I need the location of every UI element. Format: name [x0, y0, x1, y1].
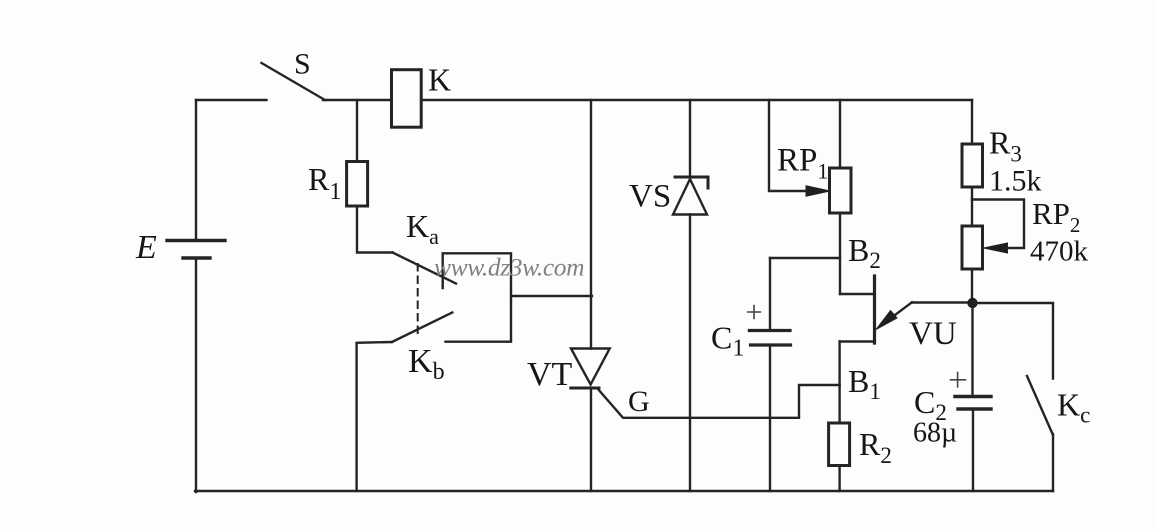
- svg-text:Ka: Ka: [406, 208, 439, 249]
- zener diode VS: [673, 177, 708, 215]
- svg-text:B2: B2: [848, 232, 881, 273]
- wire VU emitter: [912, 301, 973, 303]
- svg-text:RP1: RP1: [777, 143, 828, 184]
- capacitor C2: [951, 373, 991, 410]
- svg-text:S: S: [294, 48, 311, 81]
- svg-text:VU: VU: [909, 316, 957, 352]
- svg-text:G: G: [628, 385, 650, 418]
- wire contact box output: [511, 295, 592, 297]
- wire R3 to RP2: [971, 187, 973, 226]
- wire C1 bottom lead: [769, 345, 771, 491]
- svg-text:VT: VT: [527, 356, 573, 393]
- potentiometer RP2: [962, 226, 983, 269]
- wire left vertical (E top): [195, 100, 197, 240]
- wire C1 top lead: [769, 258, 771, 330]
- node junction dot: [967, 298, 977, 308]
- wire VS top lead: [689, 100, 691, 177]
- wire R2 bottom lead: [838, 466, 840, 492]
- relay contact Kc blade: [1027, 376, 1053, 435]
- wire Kb lead and vertical: [357, 342, 392, 491]
- svg-text:Kc: Kc: [1057, 387, 1090, 428]
- svg-text:470k: 470k: [1030, 236, 1089, 268]
- svg-text:Kb: Kb: [408, 343, 445, 385]
- svg-text:E: E: [135, 229, 157, 266]
- svg-text:R2: R2: [859, 426, 892, 468]
- wire R1 top lead: [356, 100, 358, 161]
- wire VS bottom lead: [689, 215, 691, 492]
- wire VT gate G: [598, 385, 840, 418]
- svg-text:K: K: [428, 62, 451, 98]
- capacitor C1: [748, 306, 791, 346]
- wire C2 bottom lead: [972, 409, 974, 491]
- svg-text:VS: VS: [629, 179, 671, 215]
- svg-text:R3: R3: [989, 125, 1022, 167]
- wire RP1 top lead: [839, 100, 841, 168]
- wire RP2 bottom lead: [971, 269, 973, 303]
- contact box: [443, 253, 511, 341]
- RP1 wiper arrowhead: [806, 186, 830, 196]
- RP2 wiper arrowhead: [984, 243, 1008, 253]
- battery E: [167, 241, 225, 259]
- wire B1 vertical: [838, 342, 840, 424]
- svg-text:C1: C1: [711, 320, 744, 362]
- potentiometer RP1: [830, 168, 852, 213]
- wire Kc top link: [973, 303, 1054, 379]
- resistor R1: [347, 162, 368, 207]
- wire top-left rail: [196, 99, 267, 101]
- wire VT anode: [590, 100, 592, 349]
- wire top rail: [323, 99, 972, 101]
- wire R3 top lead: [971, 100, 973, 144]
- wire Kc bottom lead: [1052, 434, 1054, 491]
- wire C2 top lead: [971, 303, 973, 396]
- wire R1 bottom lead: [357, 206, 393, 253]
- svg-text:68µ: 68µ: [913, 418, 957, 449]
- resistor R3: [962, 144, 983, 187]
- dashed mechanical link: [417, 264, 419, 336]
- unijunction transistor VU: [840, 276, 912, 343]
- wire bottom rail: [195, 490, 1053, 492]
- thyristor VT: [571, 349, 610, 492]
- relay coil K: [392, 70, 422, 128]
- wire C1 top link: [770, 257, 840, 259]
- relay contact Kb blade: [392, 313, 452, 343]
- svg-text:R1: R1: [308, 161, 341, 205]
- wire RP1 wiper: [769, 100, 812, 191]
- wire RP1 bottom to B2: [839, 213, 841, 294]
- svg-text:1.5k: 1.5k: [989, 165, 1042, 198]
- svg-text:www.dz3w.com: www.dz3w.com: [434, 253, 584, 282]
- resistor R2: [829, 423, 850, 466]
- svg-text:B1: B1: [848, 363, 881, 404]
- svg-text:RP2: RP2: [1032, 196, 1080, 237]
- wire RP2 wiper link: [972, 200, 1024, 249]
- relay contact Ka blade: [393, 253, 457, 284]
- switch S blade: [262, 63, 326, 100]
- wire left vertical (E bottom): [195, 258, 197, 492]
